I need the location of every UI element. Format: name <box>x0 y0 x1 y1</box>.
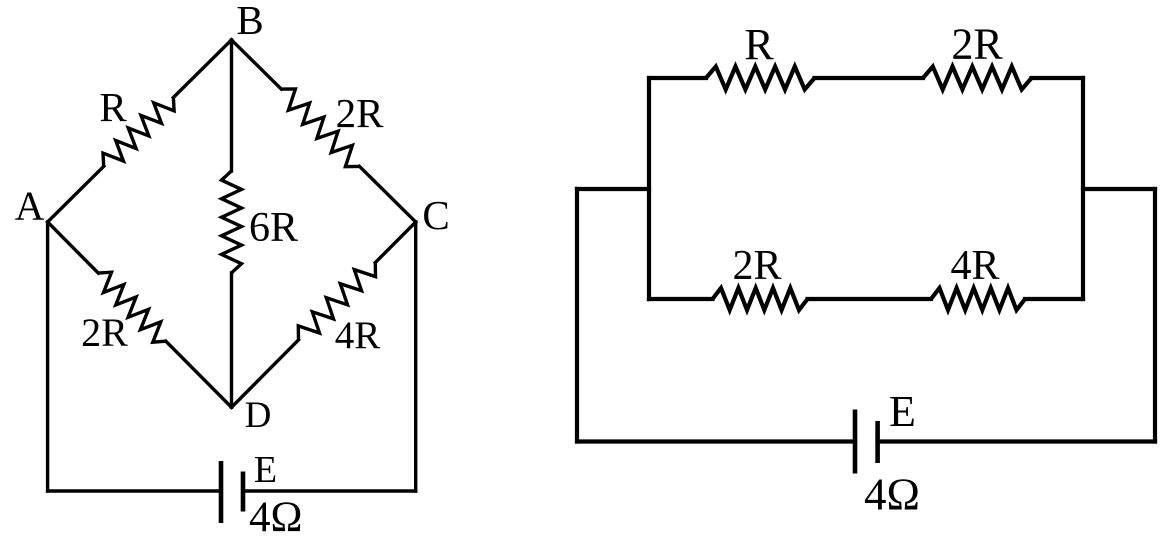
battery E1 short plate (negative) <box>241 472 246 512</box>
wire resistor R3 to node D <box>230 273 233 407</box>
svg-text:6R: 6R <box>249 205 298 251</box>
wire resistor R9 to bottom-right corner <box>1025 297 1083 301</box>
svg-text:2R: 2R <box>336 90 385 136</box>
svg-text:4R: 4R <box>950 243 999 289</box>
wire inner left side (junction of two branches, left) <box>647 78 651 299</box>
svg-text:R: R <box>99 84 127 130</box>
resistor R4 value 2R (between nodes A and D) <box>98 272 166 342</box>
battery E2 short plate (negative) <box>875 421 880 463</box>
svg-text:C: C <box>422 192 449 238</box>
wire A to resistor R1 <box>48 166 104 222</box>
wire resistor R8 to resistor R9 <box>808 297 932 301</box>
wire node A down (left side of battery loop) <box>46 222 49 491</box>
svg-text:B: B <box>236 0 263 43</box>
wire node C down (right side of battery loop) <box>414 222 417 491</box>
wire right stub to outer loop <box>1083 187 1155 191</box>
wire resistor R1 to node B <box>173 40 231 98</box>
resistor R8 value 2R (lower branch left) <box>713 288 808 310</box>
battery E1 long plate (positive) <box>219 461 224 523</box>
wire resistor R6 to resistor R7 <box>815 76 924 80</box>
resistor R9 value 4R (lower branch right) <box>931 288 1025 310</box>
svg-text:4Ω: 4Ω <box>864 470 920 520</box>
wire bottom left to battery E2 <box>577 439 855 443</box>
svg-text:2R: 2R <box>81 310 128 355</box>
svg-text:4Ω: 4Ω <box>249 494 302 541</box>
svg-text:D: D <box>245 395 272 436</box>
resistor R3 value 6R (bridge between nodes B and D) <box>222 171 242 273</box>
resistor R7 value 2R (top branch right) <box>923 67 1032 90</box>
wire outer left side down <box>575 189 579 442</box>
svg-text:A: A <box>15 182 45 228</box>
wire resistor R2 to node C <box>360 166 416 222</box>
wire A to resistor R4 <box>48 222 99 273</box>
svg-text:E: E <box>889 387 916 436</box>
svg-text:4R: 4R <box>335 314 381 357</box>
resistor R5 value 4R (between nodes D and C) <box>298 263 375 340</box>
wire left stub to outer loop <box>577 187 649 191</box>
resistor R2 value 2R (between nodes B and C) <box>281 89 359 167</box>
resistor R6 value R (top branch left) <box>706 67 815 90</box>
wire B to resistor R3 (bridge) <box>230 40 233 171</box>
wire inner right side (junction of two branches, right) <box>1081 78 1085 299</box>
resistor R1 value R (between nodes A and B) <box>103 98 174 167</box>
svg-text:R: R <box>744 20 774 69</box>
wire resistor R7 to top-right corner <box>1032 76 1084 80</box>
wire battery E1 to bottom right <box>243 489 416 492</box>
wire outer right side down <box>1153 189 1157 442</box>
wire resistor R4 to node D <box>166 341 232 407</box>
wire B to resistor R2 <box>232 40 282 89</box>
wire bottom left to battery E1 <box>48 489 221 492</box>
wire top-left corner to resistor R6 <box>649 76 706 80</box>
svg-text:2R: 2R <box>732 243 781 289</box>
wire bottom-left corner to resistor R8 <box>649 297 713 301</box>
battery E2 long plate (positive) <box>853 410 858 474</box>
wire D to resistor R5 <box>232 340 299 407</box>
wire resistor R5 to node C <box>375 222 415 263</box>
svg-text:2R: 2R <box>951 20 1003 69</box>
svg-text:E: E <box>254 449 277 491</box>
wire battery E2 to bottom right <box>878 439 1155 443</box>
